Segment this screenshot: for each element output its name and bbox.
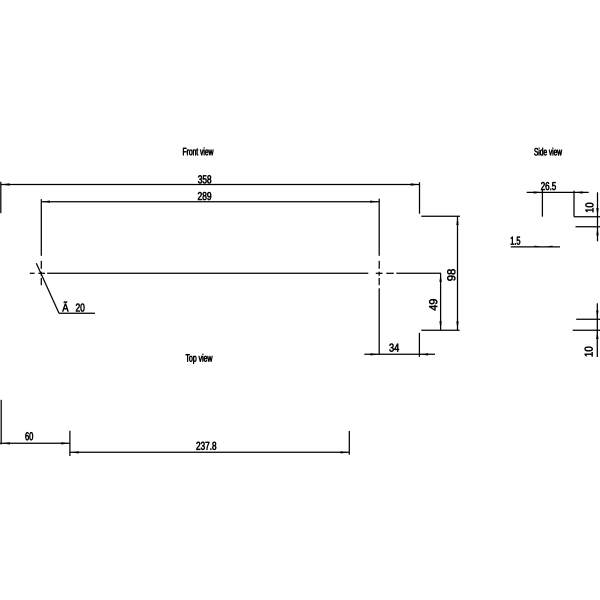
- label: hole callout value 20: [76, 303, 85, 311]
- label: 60 dimension value: [25, 432, 33, 440]
- front view: bottom-right step edge: [421, 329, 459, 331]
- arrowhead: 358 dim left: [1, 183, 10, 185]
- label: Front view title: [183, 148, 213, 156]
- side view: extension line right of 26.5 dim: [573, 191, 575, 217]
- label: lower 10 dimension value rotated: [585, 347, 593, 357]
- front view: right hole vertical center line / 34 extension: [378, 199, 380, 355]
- top view: 60 dimension line: [0, 442, 70, 444]
- side view: upper edge (top reference of lower 10 dim): [576, 318, 600, 320]
- arrowhead: 237.8 dim right: [341, 451, 350, 453]
- arrowhead: 49 dim top: [439, 274, 441, 283]
- arrowhead: 34 dim left (outside): [371, 353, 380, 355]
- arrowhead: 289 dim right: [370, 201, 379, 203]
- front view: leader underline of hole diameter callout: [59, 312, 95, 314]
- arrowhead: 60 dim right: [61, 442, 69, 444]
- front view: 358 dimension line: [1, 184, 420, 186]
- side view: lower 10 dimension line: [596, 303, 598, 357]
- arrowhead: 358 dim right: [411, 183, 420, 185]
- front view: 49 dimension line: [440, 273, 442, 330]
- top view: extension line right of 60 dim: [69, 431, 71, 456]
- top view: extension line right of 237.8 dim: [348, 431, 350, 455]
- front view: left hole vertical center line: [40, 199, 42, 285]
- front view: 289 dimension line: [41, 201, 379, 203]
- label: 1.5 dimension value: [511, 237, 520, 245]
- label: 358 dimension value: [198, 175, 211, 183]
- arrowhead: 26.5 dim left (outside): [534, 191, 543, 193]
- arrowhead: 34 dim right (outside): [420, 353, 429, 355]
- side view: 1.5 leader underline: [511, 246, 560, 248]
- label: Side view title: [534, 148, 562, 156]
- arrowhead: 98 dim top: [456, 217, 458, 226]
- front view: 98 dimension line: [457, 216, 459, 330]
- front view: extension line right of 358 dim: [419, 182, 421, 214]
- arrowhead: 289 dim left: [41, 201, 50, 203]
- side view: upper edge (top reference of upper 10 dim): [574, 216, 600, 218]
- label: hole callout diameter glyph: [62, 301, 68, 311]
- arrowhead: 60 dim left: [1, 442, 10, 444]
- top view: extension line left of 60 dim: [0, 400, 2, 445]
- arrowhead: 98 dim bottom: [456, 321, 458, 330]
- arrowhead: 1.5 dim right (outside, on underline): [544, 246, 553, 247]
- front view: extension line right of 34 dim: [418, 333, 420, 357]
- side view: upper 10 dimension line: [597, 192, 599, 241]
- top view: 237.8 dimension line: [70, 451, 349, 453]
- label: 49 dimension value rotated: [429, 299, 437, 310]
- label: 34 dimension value: [389, 344, 399, 352]
- side view: 26.5 dimension line: [527, 191, 589, 193]
- front view: extension line left of 358 dim: [0, 182, 2, 213]
- front view: top-right step edge: [421, 215, 460, 217]
- arrowhead: 237.8 dim left: [70, 451, 79, 453]
- arrowhead: lower 10 dim top (outside): [596, 311, 598, 320]
- arrowhead: upper 10 dim top (outside): [596, 208, 598, 217]
- label: 98 dimension value rotated: [447, 269, 455, 280]
- label: 26.5 dimension value: [541, 182, 556, 190]
- front view: leader line of hole diameter callout: [36, 263, 59, 313]
- side view: lower edge (bottom reference of lower 10 dim): [573, 329, 600, 331]
- label: 289 dimension value: [198, 192, 211, 200]
- arrowhead: 49 dim bottom: [439, 321, 441, 330]
- side view: lower edge (bottom reference of upper 10 dim): [576, 226, 600, 228]
- label: upper 10 dimension value rotated: [585, 203, 593, 212]
- arrowhead: lower 10 dim bottom (outside): [596, 331, 598, 340]
- front view: 34 dimension line: [364, 353, 435, 355]
- arrowhead: 1.5 dim left (outside, on underline): [534, 246, 543, 247]
- label: Top view title: [186, 354, 213, 364]
- side view: extension line left of 26.5 dim: [541, 190, 543, 217]
- arrowhead: upper 10 dim bottom (outside): [596, 227, 598, 236]
- label: 237.8 dimension value: [196, 442, 216, 450]
- arrowhead: 26.5 dim right (outside): [574, 191, 583, 193]
- front view: horizontal center line through holes: [30, 272, 441, 274]
